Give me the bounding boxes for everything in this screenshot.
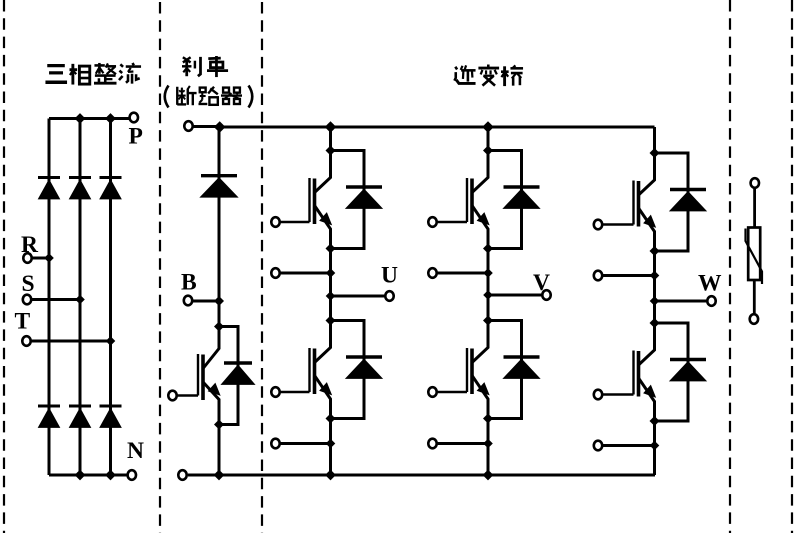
wire section divider dashed line (brake|inverter) <box>261 2 263 533</box>
terminal N <box>128 470 136 480</box>
wire phase output W <box>655 300 708 303</box>
transistor IGBT Q3H emitter arrow <box>644 216 655 228</box>
wire diode branch of brake IGBT Q7 <box>219 327 238 425</box>
wire diode branch of IGBT Q2H <box>488 151 522 249</box>
label 逆变桥 (inverter bridge title) <box>454 65 475 83</box>
transistor IGBT Q1H emitter arrow <box>320 213 331 225</box>
diode brake freewheel (to P) <box>201 174 237 177</box>
node junction phase V <box>483 290 493 300</box>
terminal thermistor top <box>751 178 759 188</box>
wire leg2 from top rail <box>487 127 490 151</box>
node junction aux upper leg1 <box>326 268 336 278</box>
wire emitter of IGBT Q1H <box>315 206 331 249</box>
wire gate lead of IGBT Q3H <box>598 223 634 226</box>
node junction aux upper leg3 <box>650 271 660 281</box>
diode diode D2L (freewheel) <box>504 355 540 358</box>
wire collector of IGBT Q2H <box>472 151 488 193</box>
terminal gate of IGBT Q1L <box>271 387 279 397</box>
node junction bottomrail/leg2 <box>483 470 494 481</box>
wire gate lead of IGBT Q1L <box>276 391 310 394</box>
wire gate lead of brake IGBT Q7 <box>173 394 199 397</box>
node bottom junction of IGBT Q3H <box>650 246 660 256</box>
wire emitter of IGBT Q3H <box>639 208 655 251</box>
wire B lead <box>193 300 220 303</box>
node bottom junction of IGBT Q2H <box>483 244 493 254</box>
svg-text:U: U <box>381 263 398 289</box>
node bottom junction of IGBT Q1H <box>326 244 336 254</box>
terminal gate of IGBT Q3H <box>594 220 602 230</box>
transistor brake IGBT Q7 body bar <box>201 355 205 401</box>
wire aux emitter lead lower leg3 <box>598 444 655 447</box>
node top junction of IGBT Q3H <box>650 148 660 158</box>
transistor brake IGBT Q7 emitter arrow <box>209 384 220 396</box>
wire diode branch of IGBT Q3H <box>655 153 689 251</box>
terminal gate of brake IGBT Q7 <box>168 391 176 401</box>
wire emitter of brake IGBT Q7 <box>203 382 219 425</box>
wire brake chopper vertical <box>218 127 221 327</box>
node junction aux lower leg3 <box>650 441 660 451</box>
wire DC+ top rail <box>220 126 655 129</box>
wire thermistor top lead <box>753 188 756 228</box>
wire collector of IGBT Q1H <box>315 151 331 193</box>
diode diode D1H (freewheel) <box>346 185 382 188</box>
terminal gate of IGBT Q1H <box>271 217 279 227</box>
wire diode branch of IGBT Q3L <box>655 323 689 421</box>
node junction bottomrail/leg1 <box>325 470 336 481</box>
diode diode D1L (freewheel) <box>346 355 382 358</box>
svg-text:T: T <box>15 309 31 335</box>
node top junction of IGBT Q2L <box>483 316 493 326</box>
transistor IGBT Q2L emitter arrow <box>478 383 489 395</box>
wire section divider dashed line (rectifier|brake) <box>159 2 161 533</box>
label 刹车 (brake title) <box>182 57 200 76</box>
terminal P <box>130 113 138 123</box>
svg-text:W: W <box>698 271 722 297</box>
diode diode D3L (freewheel) <box>670 358 706 361</box>
transistor IGBT Q1L body bar <box>313 349 317 395</box>
wire S input <box>32 298 81 301</box>
wire phase output V <box>488 294 543 297</box>
terminal aux emitter lower leg3 <box>594 441 602 451</box>
wire leg3 midsection <box>653 251 656 323</box>
wire leg1 to bottom rail <box>329 419 332 476</box>
node junction B <box>214 296 224 306</box>
terminal aux emitter upper leg1 <box>271 268 279 278</box>
terminal phase W <box>707 296 715 306</box>
node top junction of IGBT Q1L <box>326 316 336 326</box>
diode rectifier lower D5 <box>69 405 91 408</box>
diode rectifier upper D2 <box>69 176 91 179</box>
wire T input <box>31 340 111 343</box>
wire leg3 to bottom rail <box>653 421 656 475</box>
wire brake input to top rail <box>193 125 220 128</box>
terminal gate of IGBT Q3L <box>594 390 602 400</box>
wire aux emitter lead lower leg2 <box>433 442 489 445</box>
wire aux emitter lead lower leg1 <box>276 442 331 445</box>
node junction bottomrail/brake <box>214 470 225 481</box>
node bottom junction of IGBT Q3L <box>650 416 660 426</box>
wire leg3 from top rail <box>653 127 656 153</box>
node junction aux lower leg1 <box>326 439 336 449</box>
terminal T <box>22 336 30 346</box>
node junction phase W <box>650 296 660 306</box>
wire emitter of IGBT Q2L <box>472 376 488 419</box>
wire diode branch of IGBT Q1H <box>331 151 365 249</box>
terminal brake N-side <box>178 470 186 480</box>
svg-text:S: S <box>22 271 35 297</box>
transistor IGBT Q1H body bar <box>313 179 317 225</box>
wire DC- bottom rail <box>188 474 655 477</box>
node junction rail/column3 <box>105 113 116 124</box>
wire collector of IGBT Q3H <box>639 153 655 195</box>
terminal thermistor bottom <box>750 314 758 324</box>
wire gate lead of IGBT Q1H <box>276 221 310 224</box>
wire collector of brake IGBT Q7 <box>203 327 219 369</box>
node bottom junction of IGBT Q2L <box>483 414 493 424</box>
terminal aux emitter lower leg1 <box>271 439 279 449</box>
wire leg2 midsection <box>487 249 490 321</box>
wire collector of IGBT Q2L <box>472 321 488 363</box>
wire section divider dashed line (far right) <box>791 0 793 533</box>
svg-text:V: V <box>533 270 550 296</box>
diode rectifier upper D1 <box>38 176 60 179</box>
svg-text:N: N <box>127 438 144 464</box>
wire aux emitter lead upper leg3 <box>598 274 655 277</box>
wire emitter of IGBT Q3L <box>639 378 655 421</box>
node junction aux upper leg2 <box>483 268 493 278</box>
terminal gate of IGBT Q2H <box>428 217 436 227</box>
node junction toprail/leg2 <box>482 121 494 133</box>
wire emitter of IGBT Q2H <box>472 206 488 249</box>
node junction R/column1 <box>44 253 54 263</box>
wire emitter of IGBT Q1L <box>315 376 331 419</box>
terminal phase V <box>542 290 550 300</box>
terminal phase U <box>385 291 393 301</box>
wire collector of IGBT Q3L <box>639 323 655 365</box>
wire aux emitter lead upper leg1 <box>276 272 331 275</box>
transistor IGBT Q3L body bar <box>637 351 641 397</box>
wire gate lead of IGBT Q2H <box>433 221 468 224</box>
node bottom junction of IGBT Q1L <box>326 414 336 424</box>
transistor IGBT Q3H body bar <box>637 181 641 227</box>
node top junction of brake IGBT Q7 <box>214 322 224 332</box>
node junction phase U <box>326 291 336 301</box>
terminal aux emitter upper leg2 <box>428 268 436 278</box>
terminal B <box>184 296 192 306</box>
wire leg1 midsection <box>329 249 332 321</box>
wire N bus (rectifier bottom rail) <box>49 474 127 477</box>
wire R input <box>32 257 49 260</box>
diode rectifier upper D3 <box>100 176 122 179</box>
node junction rail/column2 <box>75 113 86 124</box>
node junction S/column2 <box>75 295 85 305</box>
diode diode D3H (freewheel) <box>670 188 706 191</box>
transistor IGBT Q1H gate plate <box>308 178 310 222</box>
transistor IGBT Q1L emitter arrow <box>320 383 331 395</box>
wire rectifier column 2 <box>79 119 82 476</box>
wire phase output U <box>331 295 386 298</box>
node junction Nrail/column2 <box>75 470 86 481</box>
resistor thermistor body <box>748 228 760 281</box>
label 三相整流 (three-phase rectifier title) <box>45 66 67 83</box>
node bottom junction of brake IGBT Q7 <box>214 420 224 430</box>
diode brake diode D7 (freewheel) <box>224 361 252 364</box>
node top junction of IGBT Q2H <box>483 146 493 156</box>
transistor brake IGBT Q7 gate plate <box>197 354 199 396</box>
node junction toprail/leg1 <box>325 121 337 133</box>
terminal aux emitter upper leg3 <box>594 271 602 281</box>
transistor IGBT Q2H body bar <box>470 179 474 225</box>
resistor thermistor slash mark <box>746 229 763 285</box>
transistor IGBT Q2H gate plate <box>466 178 468 222</box>
wire thermistor bottom lead <box>753 280 756 315</box>
transistor IGBT Q2L body bar <box>470 349 474 395</box>
wire section divider dashed line (inverter|thermistor) <box>729 0 731 533</box>
diode diode D2H (freewheel) <box>504 185 540 188</box>
node junction aux lower leg2 <box>483 439 493 449</box>
wire P bus (rectifier top rail) <box>49 117 129 120</box>
diode rectifier lower D4 <box>38 405 60 408</box>
node junction Nrail/column3 <box>105 470 116 481</box>
wire gate lead of IGBT Q3L <box>598 393 634 396</box>
wire collector of IGBT Q1L <box>315 321 331 363</box>
wire leg2 to bottom rail <box>487 419 490 476</box>
transistor IGBT Q2L gate plate <box>466 348 468 392</box>
wire rectifier column 3 <box>109 119 112 476</box>
wire rectifier column 1 <box>48 119 51 476</box>
svg-text:P: P <box>129 124 143 150</box>
terminal R <box>23 253 31 263</box>
terminal S <box>23 295 31 305</box>
wire brake emitter to bottom rail <box>218 425 221 476</box>
wire gate lead of IGBT Q2L <box>433 391 468 394</box>
node junction toprail/brake <box>214 121 226 133</box>
terminal brake P-side <box>184 121 192 131</box>
terminal aux emitter lower leg2 <box>428 439 436 449</box>
diode rectifier lower D6 <box>100 405 122 408</box>
wire diode branch of IGBT Q1L <box>331 321 365 419</box>
wire diode branch of IGBT Q2L <box>488 321 522 419</box>
label (断路器) (breaker subtitle) <box>165 86 169 108</box>
terminal gate of IGBT Q2L <box>428 387 436 397</box>
svg-text:B: B <box>181 270 197 296</box>
transistor IGBT Q3L emitter arrow <box>644 386 655 398</box>
transistor IGBT Q2H emitter arrow <box>478 213 489 225</box>
node junction T/column3 <box>106 336 116 346</box>
wire leg1 from top rail <box>329 127 332 151</box>
transistor IGBT Q3L gate plate <box>632 351 634 395</box>
node top junction of IGBT Q3L <box>650 318 660 328</box>
wire section divider dashed line (far left) <box>3 0 5 533</box>
transistor IGBT Q3H gate plate <box>632 181 634 225</box>
wire aux emitter lead upper leg2 <box>433 272 489 275</box>
node top junction of IGBT Q1H <box>326 146 336 156</box>
transistor IGBT Q1L gate plate <box>308 348 310 392</box>
